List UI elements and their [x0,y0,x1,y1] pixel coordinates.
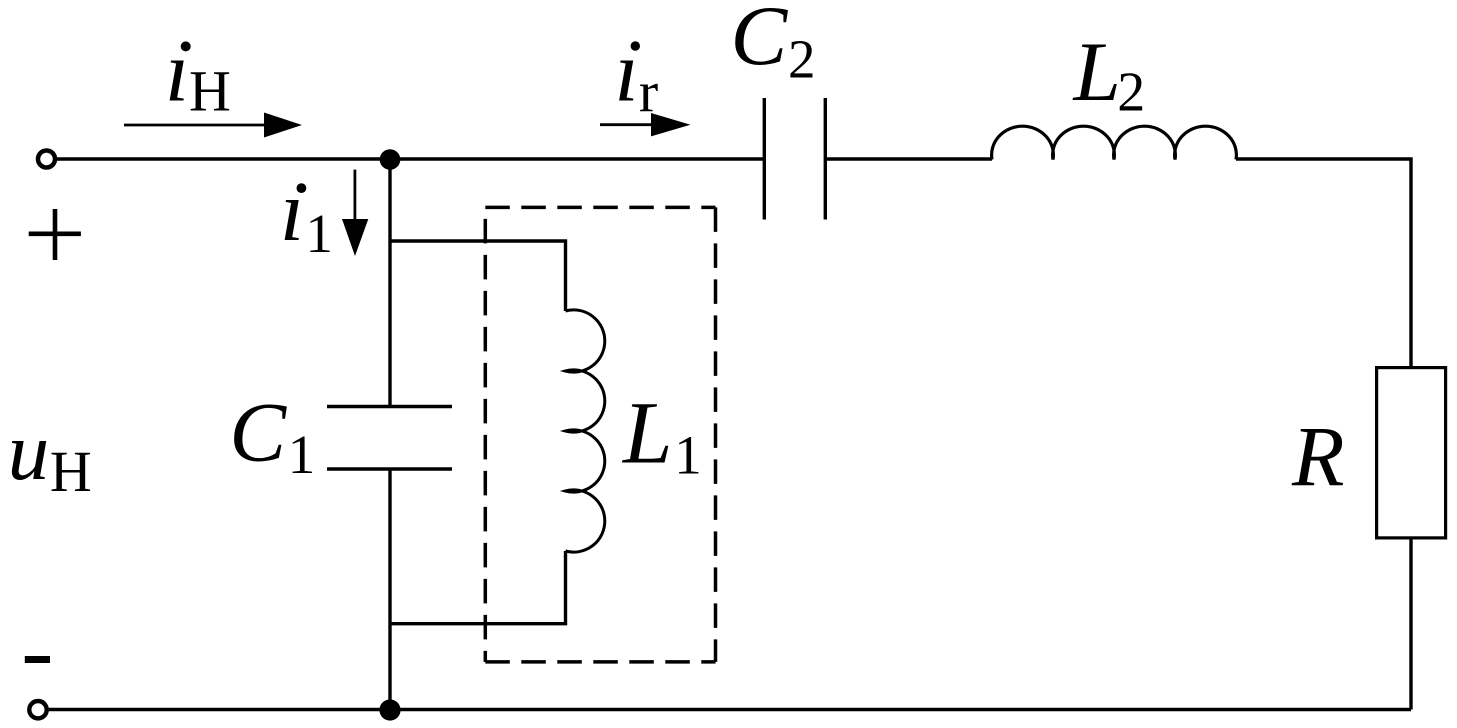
arrow for i_r [600,113,691,136]
minus sign [25,656,50,663]
wire from L1 bottom [390,551,566,624]
wire C2 to L2 [825,157,992,160]
node junction bottom [379,699,400,720]
svg-text:C: C [731,0,789,83]
inductor L1 [566,310,605,552]
svg-text:C: C [229,386,287,480]
svg-text:H: H [50,439,92,504]
label u_H [8,405,92,504]
svg-text:2: 2 [788,28,816,89]
wire C1 to bottom bus [388,469,391,710]
label i_H [165,23,231,124]
label L2 [1073,25,1146,124]
svg-text:R: R [1291,408,1345,504]
dashed box around L1 [485,207,715,662]
label i_1 [280,162,333,264]
svg-text:ı: ı [615,23,639,120]
wire bottom bus [48,708,1412,711]
inductor L2 [992,126,1237,159]
wire to L1 top [390,241,566,311]
node junction top [380,149,401,170]
label L1 [621,385,702,486]
svg-text:L: L [1073,25,1121,119]
arrow for i_H [124,113,302,138]
arrow for i_1 [342,170,368,256]
resistor R [1377,368,1446,538]
svg-text:2: 2 [1117,62,1145,124]
svg-text:1: 1 [306,203,334,264]
label C1 [229,386,315,486]
svg-text:ı: ı [280,162,304,259]
svg-text:1: 1 [674,425,702,486]
terminal top-left [38,151,55,168]
wire resistor to bottom [1409,540,1412,710]
label i_r [615,23,659,125]
wire top from terminal to C2 [57,157,764,160]
wire L2 to right corner [1236,159,1411,366]
svg-text:H: H [189,59,231,124]
svg-text:1: 1 [288,424,316,485]
svg-text:ı: ı [165,23,189,120]
svg-text:r: r [639,59,658,124]
capacitor C2 [764,98,825,220]
plus sign [29,209,81,260]
label C2 [731,0,816,89]
capacitor C1 [327,407,452,470]
wire vertical branch to C1 [388,159,391,407]
terminal bottom-left [29,701,46,718]
svg-text:L: L [621,385,673,483]
svg-text:u: u [8,405,50,497]
